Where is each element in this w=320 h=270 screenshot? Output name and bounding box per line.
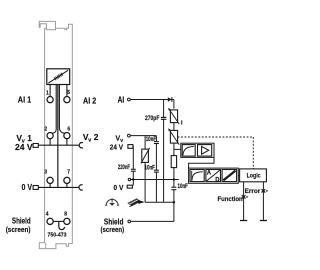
svg-text:270pF: 270pF: [145, 115, 160, 122]
svg-text:A: A: [207, 171, 212, 177]
svg-text:D: D: [215, 177, 220, 183]
svg-text:1: 1: [46, 90, 49, 96]
svg-text:4: 4: [46, 212, 49, 218]
svg-text:24 V: 24 V: [110, 143, 124, 152]
svg-text:5: 5: [67, 90, 70, 96]
svg-text:Function: Function: [218, 196, 243, 203]
svg-text:220nF: 220nF: [118, 164, 130, 171]
svg-text:24 V: 24 V: [15, 142, 33, 152]
svg-text:Error: Error: [245, 188, 261, 195]
svg-text:10nF: 10nF: [178, 183, 189, 190]
svg-text:2: 2: [44, 127, 47, 133]
svg-text:AI: AI: [118, 96, 125, 105]
svg-text:AI 1: AI 1: [18, 95, 32, 105]
svg-text:0 V: 0 V: [22, 182, 33, 192]
svg-text:10nF: 10nF: [145, 164, 156, 171]
svg-text:6: 6: [67, 127, 70, 133]
svg-text:750-473: 750-473: [48, 233, 67, 239]
svg-text:Logic: Logic: [247, 173, 261, 180]
svg-text:8: 8: [64, 212, 67, 218]
svg-text:(screen): (screen): [101, 225, 125, 234]
svg-text:AI 2: AI 2: [83, 96, 96, 106]
svg-text:3: 3: [44, 170, 47, 176]
svg-text:(screen): (screen): [6, 225, 31, 234]
svg-text:7: 7: [67, 170, 70, 176]
svg-text:0 V: 0 V: [113, 183, 124, 192]
